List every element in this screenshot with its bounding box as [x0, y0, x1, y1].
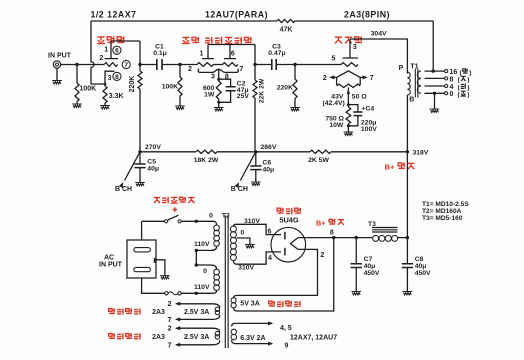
ground 0-ohm tap — [430, 93, 440, 112]
svg-text:T2: T2 — [222, 212, 230, 219]
svg-text:P: P — [399, 65, 404, 72]
resistor 2K 5W — [308, 150, 331, 164]
svg-text:12AU7(PARA): 12AU7(PARA) — [205, 10, 268, 20]
svg-text:50 Ω: 50 Ω — [352, 94, 367, 101]
tap labels 16/8/4/0 — [450, 69, 472, 99]
wire jumper between primaries — [195, 250, 197, 265]
svg-text:40μ: 40μ — [364, 263, 376, 270]
node 318V — [406, 149, 429, 156]
resistor 100K input grid leak — [75, 65, 96, 104]
wire B+ output pin8 to T3 and C8 node — [298, 237, 372, 239]
svg-text:5V 3A: 5V 3A — [240, 300, 259, 307]
svg-text:2.5V 3A: 2.5V 3A — [184, 309, 209, 316]
resistor 47K feedback — [277, 19, 295, 33]
svg-text:B+: B+ — [316, 219, 325, 228]
svg-text:): ) — [467, 77, 469, 84]
svg-text:4, 5: 4, 5 — [280, 325, 292, 332]
svg-text:270V: 270V — [145, 144, 161, 151]
svg-text:2A3: 2A3 — [152, 334, 165, 341]
tube V2 cathodes pins 3,8 — [198, 69, 238, 81]
svg-text:310V: 310V — [238, 265, 254, 272]
svg-text:2: 2 — [188, 66, 192, 73]
wire NFB left drop to 12AX7 cathode (with hop) — [91, 21, 105, 84]
svg-text:C8: C8 — [415, 256, 424, 263]
wire C3 to 2A3 grid — [295, 64, 341, 66]
svg-text:2: 2 — [323, 75, 327, 82]
resistor 22K 2W plate load V2 — [253, 45, 265, 152]
resistor 18K 2W — [194, 150, 219, 164]
svg-text:304V: 304V — [371, 30, 387, 37]
node pin8 / 5V winding — [332, 236, 335, 239]
svg-text:7: 7 — [168, 317, 172, 324]
svg-text:T2= MD160A: T2= MD160A — [422, 208, 462, 215]
switch SW — [142, 215, 213, 223]
ground 100K input — [72, 104, 82, 107]
svg-text:IN PUT: IN PUT — [99, 262, 123, 269]
svg-text:2: 2 — [168, 325, 172, 332]
svg-text:T1= MD10-2.5S: T1= MD10-2.5S — [422, 201, 469, 208]
node V2 plate / C3 — [253, 63, 256, 66]
V4 plate bars — [284, 232, 286, 256]
tube V2 grids (zigzag) pins 2,7 — [188, 63, 243, 73]
svg-text:B CH: B CH — [115, 186, 132, 193]
HV center tap 0 to ground — [237, 229, 255, 248]
svg-text:(42.4V): (42.4V) — [323, 100, 345, 107]
resistor 600 ohm 1W cathode — [203, 79, 221, 102]
node C3 / 220K junction — [293, 63, 296, 66]
resistor 3.3K cathode — [103, 84, 124, 105]
svg-text:3: 3 — [108, 75, 112, 82]
label AC IN PUT — [99, 255, 123, 269]
T2 5V winding — [231, 238, 334, 311]
svg-text:2A3(8PIN): 2A3(8PIN) — [344, 10, 390, 20]
capacitor C2 47u 25V bypass — [219, 79, 250, 102]
transformer T1 primary winding — [407, 72, 410, 95]
choke T3 — [368, 221, 398, 242]
svg-text:2.5V 3A: 2.5V 3A — [184, 334, 209, 341]
svg-text:450V: 450V — [415, 270, 431, 277]
svg-text:T3: T3 — [368, 221, 376, 228]
AC inlet box — [127, 240, 156, 278]
capacitor C4 220u 100V bias bypass — [348, 105, 377, 133]
svg-text:AC: AC — [104, 255, 114, 262]
ground C5 — [135, 183, 145, 186]
red label B+ power (rectifier) — [316, 219, 344, 228]
svg-text:2K 5W: 2K 5W — [308, 157, 329, 164]
arrow B CH (right) — [231, 152, 256, 193]
svg-text:IN PUT: IN PUT — [48, 53, 72, 60]
tube V1 pin 6 circled — [113, 46, 121, 54]
wire pin2 to 5V winding top — [237, 249, 324, 295]
ground 2A3 cathode — [344, 126, 354, 136]
svg-text:8: 8 — [450, 76, 454, 83]
node plate/C1 junction — [138, 63, 141, 66]
svg-text:B+: B+ — [385, 163, 395, 172]
node cathode junction — [104, 83, 107, 86]
svg-text:40μ: 40μ — [263, 167, 275, 174]
svg-text:318V: 318V — [413, 149, 429, 156]
svg-text:6: 6 — [115, 48, 119, 55]
T2 2.5V 3A winding (2) with pins 2,7 — [168, 325, 220, 349]
svg-text:1/2 12AX7: 1/2 12AX7 — [90, 10, 136, 20]
notes transformer types — [422, 201, 469, 222]
resistor 100K grid V2 — [162, 65, 182, 106]
svg-text:12AX7, 12AU7: 12AX7, 12AU7 — [290, 334, 337, 341]
wire center tap with arrow, 43V annotation — [323, 88, 351, 108]
svg-text:110V: 110V — [194, 284, 210, 291]
tube V3 grid pin5 (zigzag) — [332, 56, 358, 67]
transformer T1 labels — [399, 64, 419, 104]
ground input jack — [52, 81, 62, 84]
svg-text:2A3: 2A3 — [152, 309, 165, 316]
transformer T2 core — [225, 216, 228, 349]
svg-text:0: 0 — [241, 229, 245, 236]
wire fuse to primary bottom — [181, 292, 213, 295]
svg-text:7: 7 — [239, 66, 243, 73]
svg-text:+C4: +C4 — [362, 105, 375, 112]
svg-text:47K: 47K — [280, 27, 293, 34]
wire NFB right drop to 16-ohm tap — [432, 21, 434, 71]
red label B+ power (upper) — [385, 163, 415, 172]
svg-text:2: 2 — [168, 301, 172, 308]
resistor 50 ohm hum balance — [337, 84, 368, 101]
svg-text:6: 6 — [268, 228, 272, 235]
fuse F1 — [165, 292, 182, 295]
svg-text:0.1μ: 0.1μ — [153, 50, 167, 57]
svg-text:7: 7 — [124, 62, 128, 69]
svg-text:4: 4 — [268, 255, 272, 262]
svg-text:): ) — [469, 69, 471, 76]
capacitor C1 0.1u coupling — [140, 43, 180, 70]
node C8 / choke out — [406, 236, 409, 239]
wire HV bottom to plate pin4 — [237, 252, 281, 264]
wire jack to ground — [56, 68, 58, 80]
tube V1 pin 7 circled — [122, 60, 130, 68]
red label filament (rectifier) — [269, 301, 300, 307]
node primary tap 1 — [195, 249, 198, 252]
tube V2 plates pins 1,6 — [200, 45, 255, 59]
wire box to switch — [141, 221, 143, 240]
resistor 220K plate load V1 — [129, 41, 142, 152]
node 286V — [254, 144, 277, 154]
chassis earth from AC box — [154, 258, 170, 279]
wire box to fuse — [142, 278, 165, 293]
T2 primary winding 1 (0-110V) — [196, 221, 219, 250]
svg-text:): ) — [467, 84, 469, 91]
svg-text:40μ: 40μ — [415, 263, 427, 270]
svg-text:B: B — [409, 97, 414, 104]
wire HV top to plate pin6 — [236, 224, 281, 234]
red plus mark — [172, 207, 177, 212]
red label chodan-gwan (first stage tube) — [97, 36, 124, 43]
svg-text:C7: C7 — [364, 256, 373, 263]
ground C6 — [251, 182, 261, 185]
resistor 220K grid 2A3 — [277, 65, 297, 108]
svg-text:8: 8 — [330, 230, 334, 237]
ground V2 cathode — [214, 102, 224, 111]
svg-text:100V: 100V — [361, 126, 377, 133]
svg-text:5U4G: 5U4G — [279, 215, 299, 224]
red label chodan drive-gwan (driver tube) — [182, 37, 252, 44]
T2 primary winding 2 (0-110V) — [196, 265, 219, 293]
svg-text:0.47μ: 0.47μ — [268, 50, 285, 57]
ground C7 — [351, 292, 361, 295]
tube V1 pin 8 circled — [113, 72, 121, 80]
svg-text:8: 8 — [115, 74, 119, 81]
svg-text:4: 4 — [450, 84, 454, 91]
wire B+ rail 270V-286V-318V — [140, 151, 407, 153]
svg-text:3.3K: 3.3K — [109, 93, 124, 100]
svg-text:100K: 100K — [162, 84, 178, 91]
node switch/primary top — [195, 220, 198, 223]
red label filament (1) — [109, 308, 140, 314]
T2 6.3V 2A winding — [231, 321, 273, 345]
svg-text:3: 3 — [211, 74, 215, 81]
svg-text:6: 6 — [231, 50, 235, 57]
ground 100K V2 — [175, 106, 185, 109]
svg-text:286V: 286V — [261, 144, 277, 151]
svg-text:0: 0 — [450, 91, 454, 98]
tube V3 filament pins 2,7 — [323, 71, 374, 85]
T2 HV secondary winding 310-0-310 — [230, 224, 236, 264]
transformer T1 secondary winding — [417, 71, 421, 93]
svg-text:7: 7 — [168, 342, 172, 349]
svg-text:1: 1 — [104, 47, 108, 54]
svg-text:3: 3 — [353, 44, 357, 51]
svg-text:T3= MD5-160: T3= MD5-160 — [422, 215, 463, 222]
svg-text:B CH: B CH — [231, 186, 248, 193]
svg-text:0: 0 — [209, 212, 213, 219]
svg-text:220K: 220K — [129, 76, 136, 93]
svg-text:6.3V 2A: 6.3V 2A — [240, 335, 265, 342]
svg-text:1: 1 — [200, 50, 204, 57]
svg-text:40μ: 40μ — [147, 165, 159, 172]
wire plate to load node — [111, 40, 140, 42]
tube V1 plate pin1 — [104, 41, 118, 59]
svg-text:1W: 1W — [204, 91, 215, 98]
capacitor C7 40u 450V — [351, 238, 380, 291]
capacitor C6 40u decoupling — [250, 152, 274, 182]
svg-text:22K 2W: 22K 2W — [258, 78, 265, 103]
wire input to grid — [61, 63, 104, 66]
svg-text:16: 16 — [450, 69, 458, 76]
ground C8 — [403, 292, 413, 295]
node cathode bias top — [347, 103, 350, 106]
secondary taps 16/8/4/0 — [425, 69, 448, 95]
T2 2.5V 3A winding (1) with pins 2,7 — [168, 301, 220, 324]
svg-text:0: 0 — [203, 268, 207, 275]
node 270V — [138, 144, 161, 154]
red label slidacs — [154, 197, 195, 203]
svg-text:): ) — [467, 92, 469, 99]
tube V3 plate pin3 — [343, 39, 359, 58]
rectifier V4 5U4G envelope — [271, 227, 306, 262]
node cathode junction V2 — [217, 78, 220, 81]
node primary tap 2 — [195, 263, 198, 266]
svg-text:9: 9 — [285, 342, 289, 349]
wire NFB top rail — [91, 20, 433, 22]
svg-text:25V: 25V — [237, 93, 250, 100]
svg-text:100K: 100K — [80, 86, 97, 93]
resistor 750 ohm 10W bias — [325, 105, 350, 129]
svg-text:7: 7 — [370, 75, 374, 82]
svg-text:18K 2W: 18K 2W — [194, 157, 219, 164]
svg-text:2: 2 — [320, 252, 324, 259]
red label jeongryu-gwan (rectifier tube) — [277, 208, 301, 214]
node bias bottom — [347, 124, 350, 127]
V4 filament — [290, 238, 298, 250]
tube V1 12AX7 grid (zigzag) pin2 — [99, 55, 117, 66]
red label chullyeok-gwan (output tube) — [335, 36, 362, 43]
svg-text:220K: 220K — [277, 85, 293, 92]
wire 304V plate to T1 primary — [350, 39, 407, 74]
svg-text:110V: 110V — [194, 241, 210, 248]
ground 3.3K — [100, 106, 110, 109]
arrow B CH (left) — [115, 152, 140, 193]
input jack J1 — [53, 61, 60, 68]
svg-text:450V: 450V — [364, 270, 380, 277]
transformer T2 labels — [209, 212, 230, 219]
red label filament (2) — [109, 333, 140, 339]
svg-text:5: 5 — [332, 56, 336, 63]
capacitor C5 40u decoupling — [134, 152, 159, 182]
wire T1 primary bottom to 318V — [406, 95, 408, 152]
node C1 / 100K junction — [178, 63, 181, 66]
wire C1 to grids — [180, 64, 197, 66]
node C7 — [355, 236, 358, 239]
node 600/C2 bottom — [217, 101, 220, 104]
ground 220K — [290, 108, 300, 111]
tube V1 cathode pin3 — [105, 71, 115, 84]
svg-text:2: 2 — [99, 55, 103, 62]
svg-text:10W: 10W — [329, 122, 344, 129]
transformer T1 core — [415, 69, 418, 98]
capacitor C3 0.47u coupling — [255, 43, 295, 70]
capacitor C8 40u 450V — [402, 152, 431, 291]
